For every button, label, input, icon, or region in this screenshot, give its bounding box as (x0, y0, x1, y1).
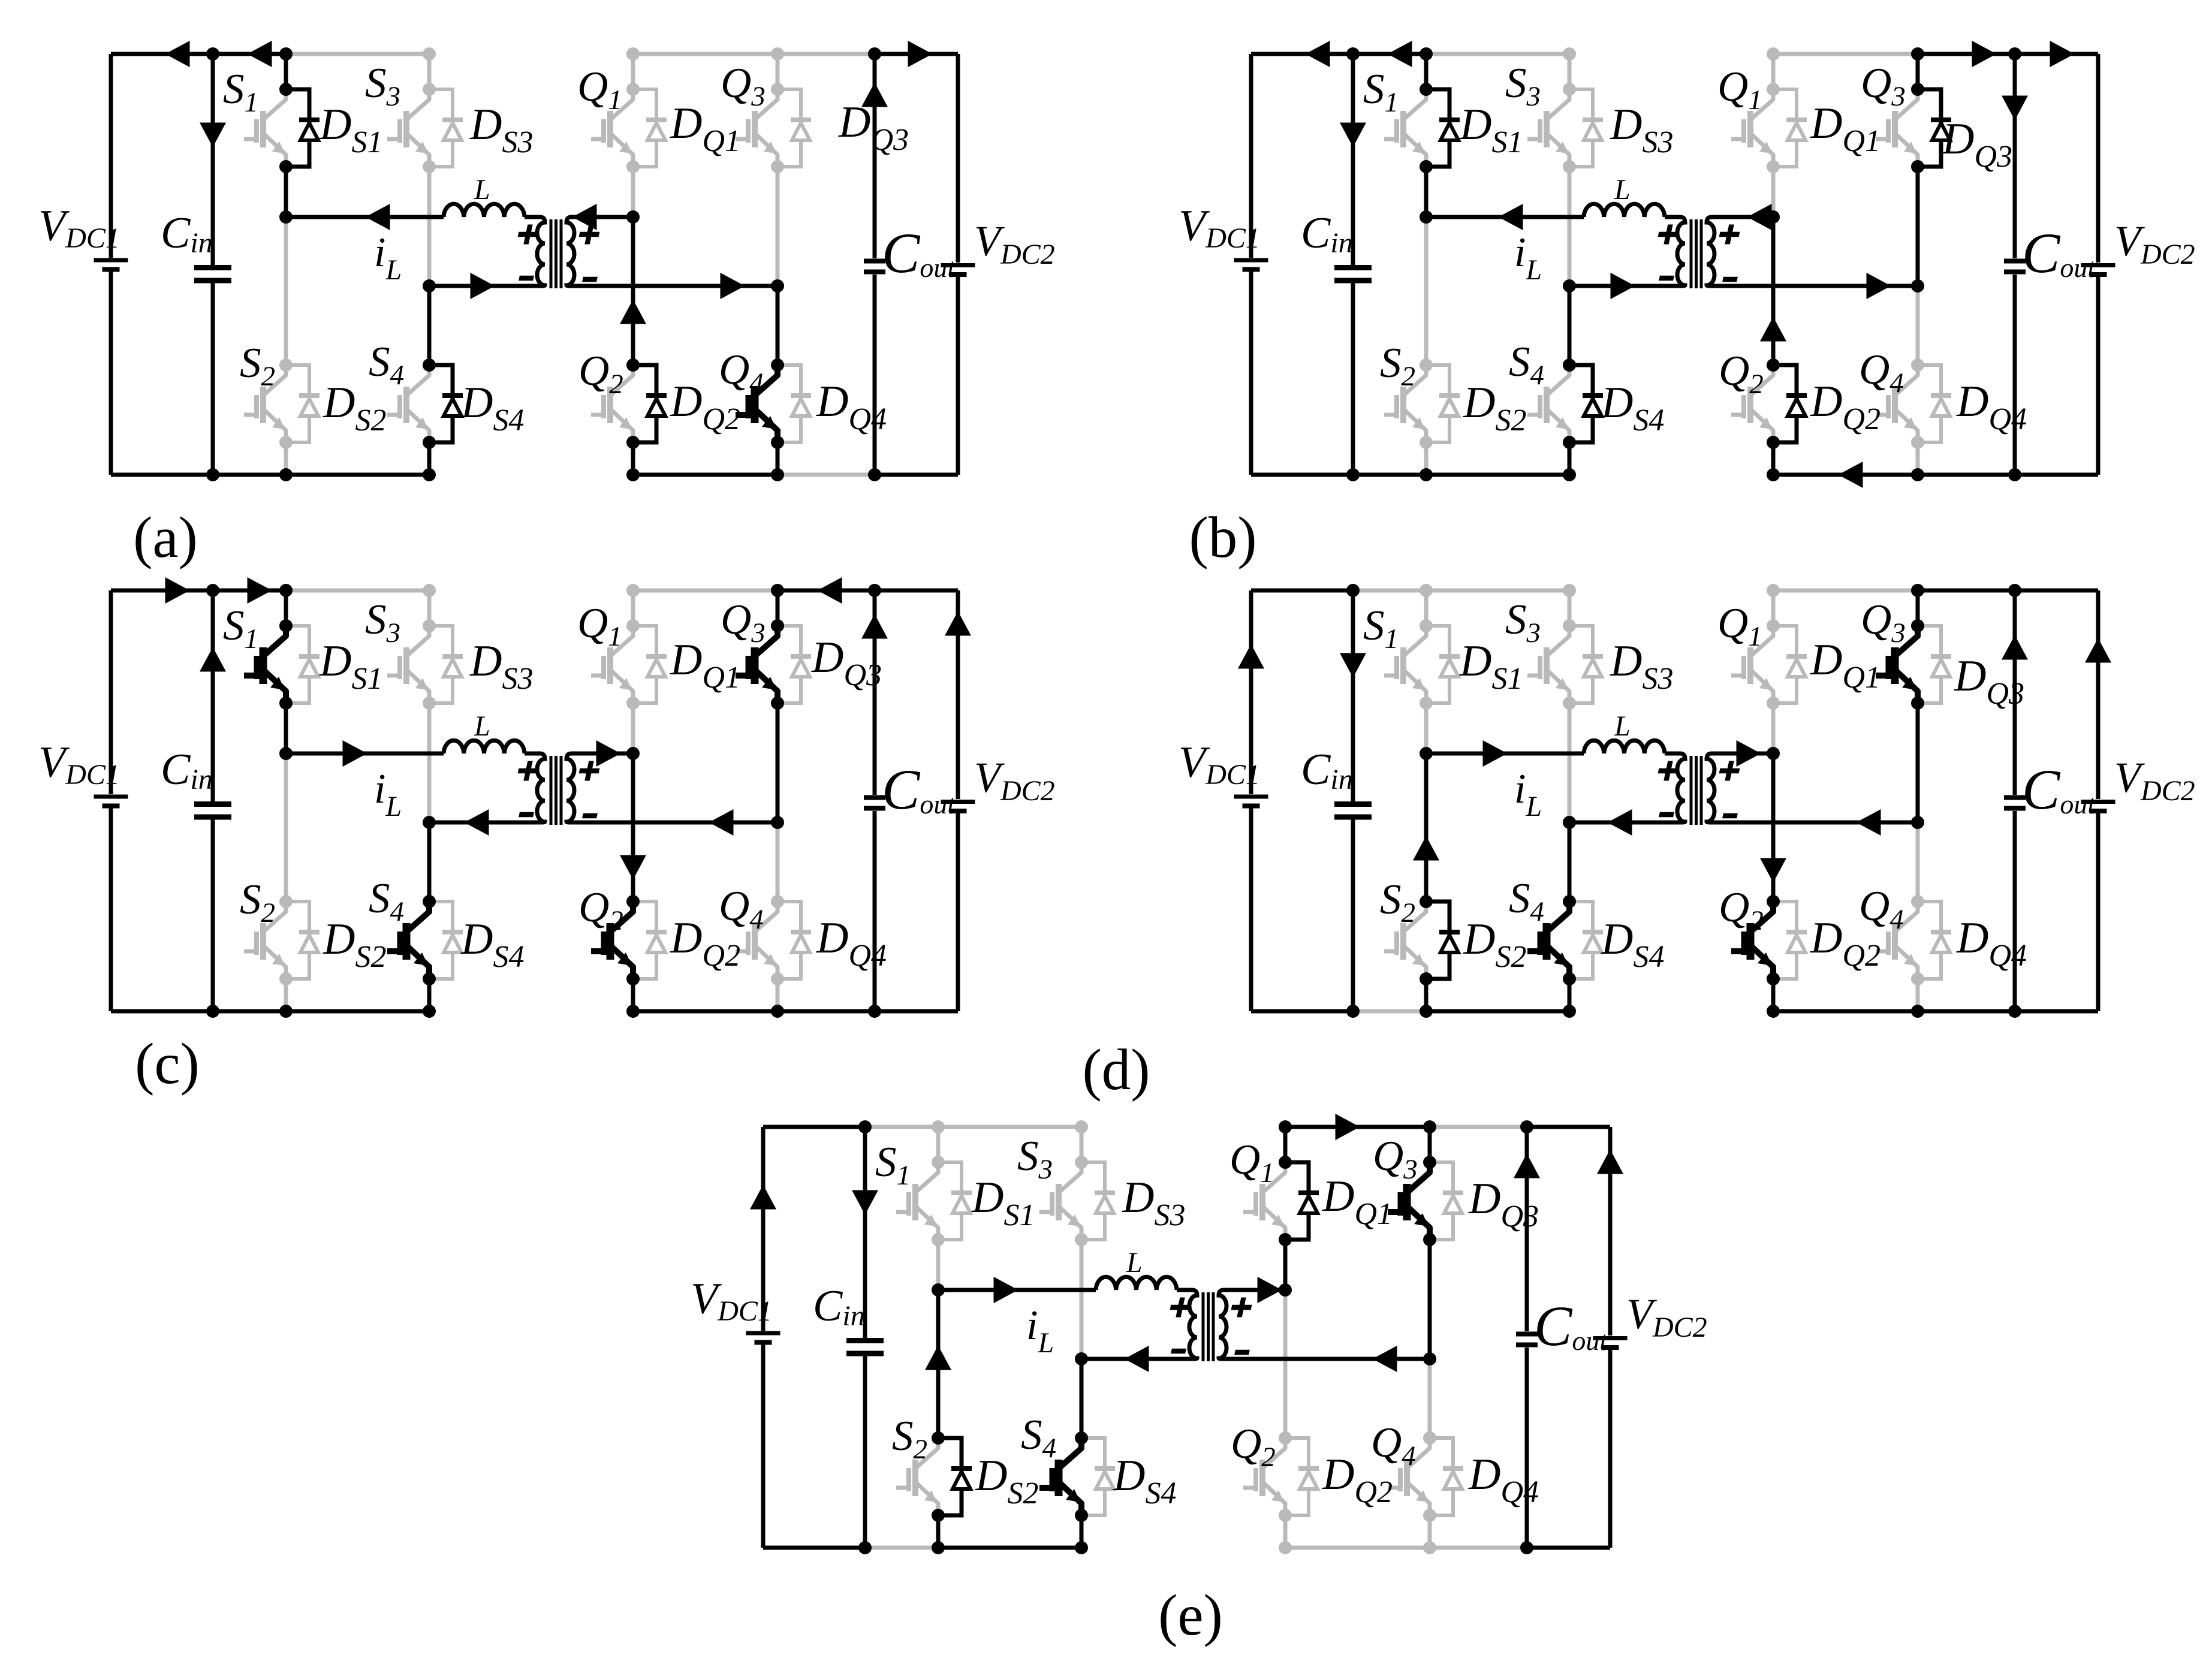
node S2 emitter terminal (1420, 972, 1433, 985)
wire Q1 leg upper (631, 590, 635, 626)
node S4 collector terminal (423, 358, 436, 372)
node Q4 emitter terminal (771, 436, 784, 449)
wire bottom rail S2 to S4 leg (286, 1009, 429, 1014)
diode DQ4 (1430, 1438, 1453, 1515)
transformer secondary winding (566, 753, 586, 822)
IGBT S2 (917, 1438, 938, 1515)
node bottom rail / S2 leg junction (279, 1005, 293, 1018)
wire node B to transformer (429, 284, 537, 288)
wire top rail Cout to VDC2 (875, 52, 958, 56)
wire transformer to node C (573, 752, 633, 756)
wire Q4 to bottom rail (1916, 442, 1920, 475)
current arrow Cin current (1340, 123, 1366, 147)
wire transformer to node D (573, 821, 777, 825)
svg-text:L: L (1614, 174, 1631, 206)
node S2 collector terminal (279, 358, 293, 372)
node Q4 collector terminal (771, 358, 784, 372)
node top rail / S3 leg junction (423, 47, 436, 61)
node bottom rail / Cin junction (858, 1541, 872, 1554)
diode DQ4 (1918, 902, 1941, 979)
current arrow top rail ib (1306, 41, 1330, 67)
node bottom rail / Q4 leg junction (1911, 468, 1924, 481)
wire node A to inductor (938, 1288, 1096, 1292)
node top rail / Cout junction (868, 47, 881, 61)
node B primary bridge AC node (423, 816, 436, 829)
current arrow output current (908, 41, 933, 67)
node Q4 collector terminal (1423, 1431, 1436, 1445)
current arrow secondary bottom (709, 809, 734, 836)
wire S3 leg upper (1568, 590, 1572, 626)
diode DQ3 (conducting) (1918, 89, 1941, 167)
node S2 collector terminal (932, 1431, 945, 1445)
IGBT Q3 (1897, 89, 1918, 167)
node C secondary bridge AC node (1767, 747, 1780, 760)
current arrow Q2 leg current (1760, 858, 1786, 883)
wire S1 leg upper (284, 590, 288, 626)
wire bottom rail S2 to S4 leg (938, 1546, 1081, 1550)
node S2 emitter terminal (932, 1509, 945, 1522)
wire node A to inductor (1426, 752, 1584, 756)
wire Q1 to node C (1283, 1240, 1288, 1290)
diode DQ3 (1918, 626, 1941, 703)
node bottom rail / S4 leg junction (423, 1005, 436, 1018)
wire S1 leg upper (936, 1127, 941, 1162)
current arrow Cout current (861, 83, 888, 107)
current arrow top rail ib (165, 41, 190, 67)
wire Q1 to node C (631, 167, 635, 217)
circuit (e): DS2 S4 with DQ1 Q3 conducting (691, 1114, 1707, 1554)
node bottom rail / Cout junction (868, 468, 881, 481)
current arrow VDC2 current (945, 611, 971, 636)
wire S3 leg upper (427, 590, 432, 626)
svg-text:(a): (a) (133, 505, 198, 569)
wire transformer to node C (1713, 752, 1773, 756)
wire bottom rail Q4 to Cout (1430, 1546, 1527, 1550)
node S2 emitter terminal (279, 436, 293, 449)
wire Q3 leg upper (776, 590, 780, 626)
wire Q2 to bottom rail (631, 442, 635, 475)
node top rail / Q3 leg junction (1911, 584, 1924, 597)
diode DS3 (1569, 89, 1593, 167)
transformer primary polarity - (519, 812, 534, 817)
node S1 emitter terminal (1420, 160, 1433, 173)
capacitor Cout (2004, 795, 2026, 800)
wire top rail Q3 to Cout (777, 52, 875, 56)
transformer primary winding (1177, 1290, 1197, 1359)
wire Cout capacitor leg (2013, 590, 2017, 1011)
node top rail / Cin junction (206, 47, 219, 61)
node S3 collector terminal (1563, 83, 1576, 96)
wire right rail with VDC2 source (956, 590, 960, 1011)
node Q4 emitter terminal (1911, 972, 1924, 985)
node top rail / S3 leg junction (1075, 1120, 1088, 1134)
node Q2 collector terminal (626, 358, 640, 372)
current arrow S2 leg current (925, 1346, 951, 1370)
current arrow top rail ia (165, 577, 190, 604)
wire node A to S2 (936, 1290, 941, 1438)
node bottom rail / Cout junction (2008, 468, 2021, 481)
IGBT S3 (1060, 1162, 1081, 1240)
wire Cout capacitor leg (1525, 1127, 1529, 1548)
node S3 emitter terminal (1563, 160, 1576, 173)
node C secondary bridge AC node (1279, 1283, 1292, 1297)
battery VDC2 (2081, 800, 2115, 804)
node Q1 emitter terminal (626, 160, 640, 173)
wire node B to transformer (429, 821, 537, 825)
IGBT Q1 (612, 626, 633, 703)
wire node A to S2 (1424, 217, 1429, 365)
node bottom rail / Cout junction (2008, 1005, 2021, 1018)
diode DQ1 (1773, 626, 1797, 703)
node bottom rail / Cin junction (1346, 468, 1360, 481)
diode DS4 (429, 902, 453, 979)
wire node A to inductor (286, 215, 444, 219)
wire top rail to S3 (286, 589, 429, 593)
wire node D to Q4 (1916, 822, 1920, 902)
node S1 collector terminal (1420, 83, 1433, 96)
diode DS2 (1426, 365, 1449, 442)
IGBT S1 (1405, 626, 1426, 703)
node Q1 collector terminal (1767, 619, 1780, 632)
wire S3 to node B (1568, 703, 1572, 822)
current arrow Cout current (2002, 635, 2028, 660)
node Q2 emitter terminal (1767, 436, 1780, 449)
node bottom rail / Q2 leg junction (1767, 1005, 1780, 1018)
node S1 emitter terminal (1420, 697, 1433, 710)
IGBT Q2 (conducting) (612, 902, 633, 979)
node top rail / Cin junction (1346, 584, 1360, 597)
wire left rail with VDC1 source (1249, 54, 1253, 475)
wire bottom rail Cin to S2 leg (213, 1009, 286, 1014)
wire top rail to S3 (938, 1125, 1081, 1129)
circuit (c): S1 S4 and Q2 Q3 conducting (38, 577, 1055, 1018)
wire Q1 to node C (1771, 703, 1776, 753)
inductor L (1584, 204, 1665, 217)
wire transformer to node D (1713, 821, 1918, 825)
node top rail / S3 leg junction (1563, 47, 1576, 61)
transformer core (1202, 1292, 1205, 1361)
node Q3 collector terminal (1911, 83, 1924, 96)
current arrow primary return (1611, 273, 1635, 299)
node D secondary bridge AC node (771, 816, 784, 829)
transformer primary polarity - (1659, 276, 1674, 281)
node Q3 collector terminal (771, 619, 784, 632)
wire bottom rail Cin to S2 leg (865, 1546, 938, 1550)
transformer secondary winding (1219, 1290, 1238, 1359)
wire S4 to bottom rail (1080, 1515, 1084, 1548)
wire Q1 leg upper (1771, 590, 1776, 626)
capacitor Cin (1334, 265, 1372, 270)
wire bottom rail Q2 to Q4 (1773, 473, 1918, 477)
wire top rail to S1 (865, 1125, 938, 1129)
transformer secondary polarity - (1722, 813, 1738, 818)
wire S3 leg upper (1080, 1127, 1084, 1162)
wire S2 to bottom rail (284, 979, 288, 1011)
current arrow Q bridge top current (1336, 1114, 1360, 1140)
node bottom rail / Cout junction (868, 1005, 881, 1018)
node Q1 collector terminal (1767, 83, 1780, 96)
node Q4 emitter terminal (1423, 1509, 1436, 1522)
wire right rail with VDC2 source (2096, 54, 2101, 475)
wire S2 to bottom rail (1424, 442, 1429, 475)
node bottom rail / S4 leg junction (1075, 1541, 1088, 1554)
node bottom rail / Cout junction (1520, 1541, 1533, 1554)
IGBT Q2 (conducting) (1752, 902, 1773, 979)
node D secondary bridge AC node (771, 279, 784, 293)
transformer primary polarity + (516, 761, 540, 781)
wire Cout capacitor leg (2013, 54, 2017, 475)
wire top rail Cout to VDC2 (1527, 1125, 1610, 1129)
diode DQ2 (conducting) (633, 365, 656, 442)
diode DQ2 (633, 902, 656, 979)
transformer secondary polarity - (582, 813, 598, 818)
wire node A to S2 (284, 753, 288, 902)
current arrow Cin current (852, 1190, 878, 1215)
current arrow inductor current iL (994, 1277, 1018, 1303)
wire S4 to bottom rail (1568, 442, 1572, 475)
current arrow top rail ia (248, 41, 272, 67)
IGBT S3 (408, 89, 429, 167)
wire Q1 leg upper (1771, 54, 1776, 89)
node Q2 emitter terminal (626, 436, 640, 449)
current arrow inductor current iL (366, 204, 390, 230)
IGBT S3 (408, 626, 429, 703)
node top rail / Q3 leg junction (771, 584, 784, 597)
svg-text:(e): (e) (1158, 1583, 1223, 1647)
node Q3 emitter terminal (1423, 1233, 1436, 1246)
node S4 emitter terminal (423, 436, 436, 449)
node Q3 emitter terminal (1911, 160, 1924, 173)
node S1 collector terminal (1420, 619, 1433, 632)
node bottom rail / Q2 leg junction (1767, 468, 1780, 481)
wire top rail to S1 (213, 589, 286, 593)
node Q2 collector terminal (626, 895, 640, 908)
diode DS3 (429, 89, 453, 167)
wire top rail Q1 to Q3 (633, 52, 777, 56)
node bottom rail / Q4 leg junction (771, 468, 784, 481)
node top rail / Q3 leg junction (771, 47, 784, 61)
diode DS1 (286, 626, 309, 703)
IGBT Q4 (757, 902, 777, 979)
node Q1 collector terminal (1279, 1156, 1292, 1169)
node top rail / S1 leg junction (1420, 47, 1433, 61)
current arrow VDC1 current (750, 1185, 776, 1210)
node top rail / Q1 leg junction (626, 47, 640, 61)
current arrow primary return (1608, 809, 1632, 836)
transformer secondary polarity + (1229, 1298, 1253, 1318)
wire bottom rail Q4 to Cout (777, 1009, 875, 1014)
wire node B to S4 (427, 822, 432, 902)
node bottom rail / Cin junction (206, 468, 219, 481)
transformer secondary winding (1707, 753, 1726, 822)
node Q3 emitter terminal (1911, 697, 1924, 710)
wire Cin capacitor leg (1351, 590, 1355, 1011)
node S4 collector terminal (1563, 895, 1576, 908)
wire node A to S2 (1424, 753, 1429, 902)
circuit (d): S2 S4 with Q2 Q3 conducting (1179, 584, 2195, 1018)
circuit (a): powering interval, S1 S4 diodes conducting (38, 41, 1055, 481)
IGBT Q3 (conducting) (757, 626, 777, 703)
node Q4 collector terminal (1911, 358, 1924, 372)
transformer primary polarity - (1171, 1349, 1186, 1353)
wire S2 to bottom rail (284, 442, 288, 475)
node top rail / Cout junction (1520, 1120, 1533, 1134)
capacitor Cout (864, 795, 885, 800)
wire Cin capacitor leg (863, 1127, 867, 1548)
node S3 collector terminal (423, 619, 436, 632)
current arrow output current a (1972, 41, 1997, 67)
node bottom rail / S4 leg junction (1563, 1005, 1576, 1018)
wire node B to S4 (1568, 286, 1572, 365)
wire Cin capacitor leg (1351, 54, 1355, 475)
IGBT S1 (265, 89, 286, 167)
current arrow Cin current (200, 123, 226, 147)
node S3 emitter terminal (1075, 1233, 1088, 1246)
node C secondary bridge AC node (1767, 210, 1780, 224)
wire transformer to node D (1225, 1357, 1430, 1361)
node S4 emitter terminal (1563, 436, 1576, 449)
wire Q4 to bottom rail (776, 442, 780, 475)
IGBT Q4 (1897, 365, 1918, 442)
wire node C to Q2 (1771, 217, 1776, 365)
transformer secondary polarity - (1234, 1350, 1250, 1355)
transformer primary winding (1665, 753, 1685, 822)
wire transformer to node C (1713, 215, 1773, 219)
node top rail / Q1 leg junction (1767, 47, 1780, 61)
transformer primary polarity + (1656, 225, 1680, 245)
capacitor Cin (1334, 801, 1372, 807)
wire S3 leg upper (1568, 54, 1572, 89)
transformer secondary polarity - (1722, 277, 1738, 282)
node S2 collector terminal (1420, 895, 1433, 908)
node top rail / Cout junction (868, 584, 881, 597)
diode DS1 (conducting) (1426, 89, 1449, 167)
wire bottom rail VDC1 to Cin (1251, 1009, 1353, 1014)
wire node B to transformer (1569, 284, 1677, 288)
node Q3 collector terminal (1911, 619, 1924, 632)
transformer secondary polarity + (1717, 225, 1741, 245)
diode DS3 (1081, 1162, 1105, 1240)
IGBT S3 (1548, 89, 1569, 167)
wire top rail left section (1251, 589, 1353, 593)
node Q4 emitter terminal (1911, 436, 1924, 449)
node S1 collector terminal (279, 619, 293, 632)
node top rail / Q3 leg junction (1911, 47, 1924, 61)
wire S3 to node B (427, 703, 432, 822)
wire top rail to S1 (1353, 52, 1426, 56)
wire node A to inductor (286, 752, 444, 756)
transformer primary polarity - (519, 276, 534, 281)
transformer core (550, 219, 553, 288)
node top rail / Cin junction (1346, 47, 1360, 61)
node Q3 collector terminal (771, 83, 784, 96)
IGBT S2 (1405, 365, 1426, 442)
svg-text:L: L (1126, 1247, 1143, 1279)
node bottom rail / Q4 leg junction (771, 1005, 784, 1018)
node top rail / S3 leg junction (1563, 584, 1576, 597)
current arrow secondary top (572, 204, 597, 230)
wire Q1 to node C (1771, 167, 1776, 217)
node Q1 emitter terminal (626, 697, 640, 710)
wire top rail to S1 (1353, 589, 1426, 593)
node D secondary bridge AC node (1911, 816, 1924, 829)
diode DS4 (conducting) (429, 365, 453, 442)
diode DS2 (conducting) (938, 1438, 962, 1515)
wire S2 to bottom rail (936, 1515, 941, 1548)
IGBT Q4 (conducting) (757, 365, 777, 442)
node bottom rail / S4 leg junction (423, 468, 436, 481)
wire top rail Cout to VDC2 (875, 589, 958, 593)
wire top rail Q1 to Q3 (1285, 1125, 1430, 1129)
IGBT S4 (1548, 365, 1569, 442)
node A primary bridge AC node (279, 210, 293, 224)
wire bottom rail Cout to VDC2 (875, 473, 958, 477)
wire top rail left section (111, 52, 213, 56)
diode DQ3 (1430, 1162, 1453, 1240)
transformer primary polarity + (1656, 761, 1680, 781)
wire top rail to S3 (286, 52, 429, 56)
transformer core (1690, 756, 1693, 825)
IGBT S4 (conducting) (408, 902, 429, 979)
wire Cout capacitor leg (873, 590, 877, 1011)
transformer core (550, 756, 553, 825)
node top rail / S1 leg junction (279, 584, 293, 597)
battery VDC2 (1593, 1336, 1628, 1340)
wire node C to Q2 (1283, 1290, 1288, 1438)
current arrow Q2 leg current (620, 855, 646, 880)
current arrow primary return (1125, 1346, 1149, 1372)
wire left rail with VDC1 source (1249, 590, 1253, 1011)
node S3 collector terminal (1075, 1156, 1088, 1169)
transformer primary winding (525, 217, 545, 286)
wire S3 to node B (1568, 167, 1572, 286)
transformer secondary polarity + (1717, 761, 1741, 781)
wire Q3 to node D (1428, 1240, 1432, 1359)
node S3 emitter terminal (423, 697, 436, 710)
current arrow Cin current (200, 647, 226, 672)
IGBT S4 (conducting) (1548, 902, 1569, 979)
wire S1 to node A (936, 1240, 941, 1290)
node Q2 collector terminal (1767, 358, 1780, 372)
diode DS3 (1569, 626, 1593, 703)
diode DQ3 (777, 89, 801, 167)
wire Q3 to node D (776, 703, 780, 822)
wire bottom rail Q4 to Cout (1918, 473, 2015, 477)
node top rail / S1 leg junction (932, 1120, 945, 1134)
wire bottom rail Cout to VDC2 (2015, 1009, 2098, 1014)
node S3 collector terminal (1563, 619, 1576, 632)
diode DS2 (286, 365, 309, 442)
node bottom rail / Q2 leg junction (626, 468, 640, 481)
node top rail / Q1 leg junction (1767, 584, 1780, 597)
wire bottom rail Cin to S2 leg (1353, 473, 1426, 477)
wire top rail left section (763, 1125, 865, 1129)
wire S1 to node A (284, 167, 288, 217)
node S1 collector terminal (932, 1156, 945, 1169)
wire bottom rail Q4 to Cout (777, 473, 875, 477)
node D secondary bridge AC node (1423, 1352, 1436, 1365)
diode DS2 (286, 902, 309, 979)
wire bottom rail Q2 to Q4 (633, 1009, 777, 1014)
node bottom rail / S2 leg junction (1420, 468, 1433, 481)
wire top rail Cout to VDC2 (2015, 52, 2098, 56)
node bottom rail / Q2 leg junction (626, 1005, 640, 1018)
node S4 collector terminal (1075, 1431, 1088, 1445)
wire Cout capacitor leg (873, 54, 877, 475)
diode DQ4 (1918, 365, 1941, 442)
wire Q3 leg upper (776, 54, 780, 89)
node bottom rail / S2 leg junction (279, 468, 293, 481)
